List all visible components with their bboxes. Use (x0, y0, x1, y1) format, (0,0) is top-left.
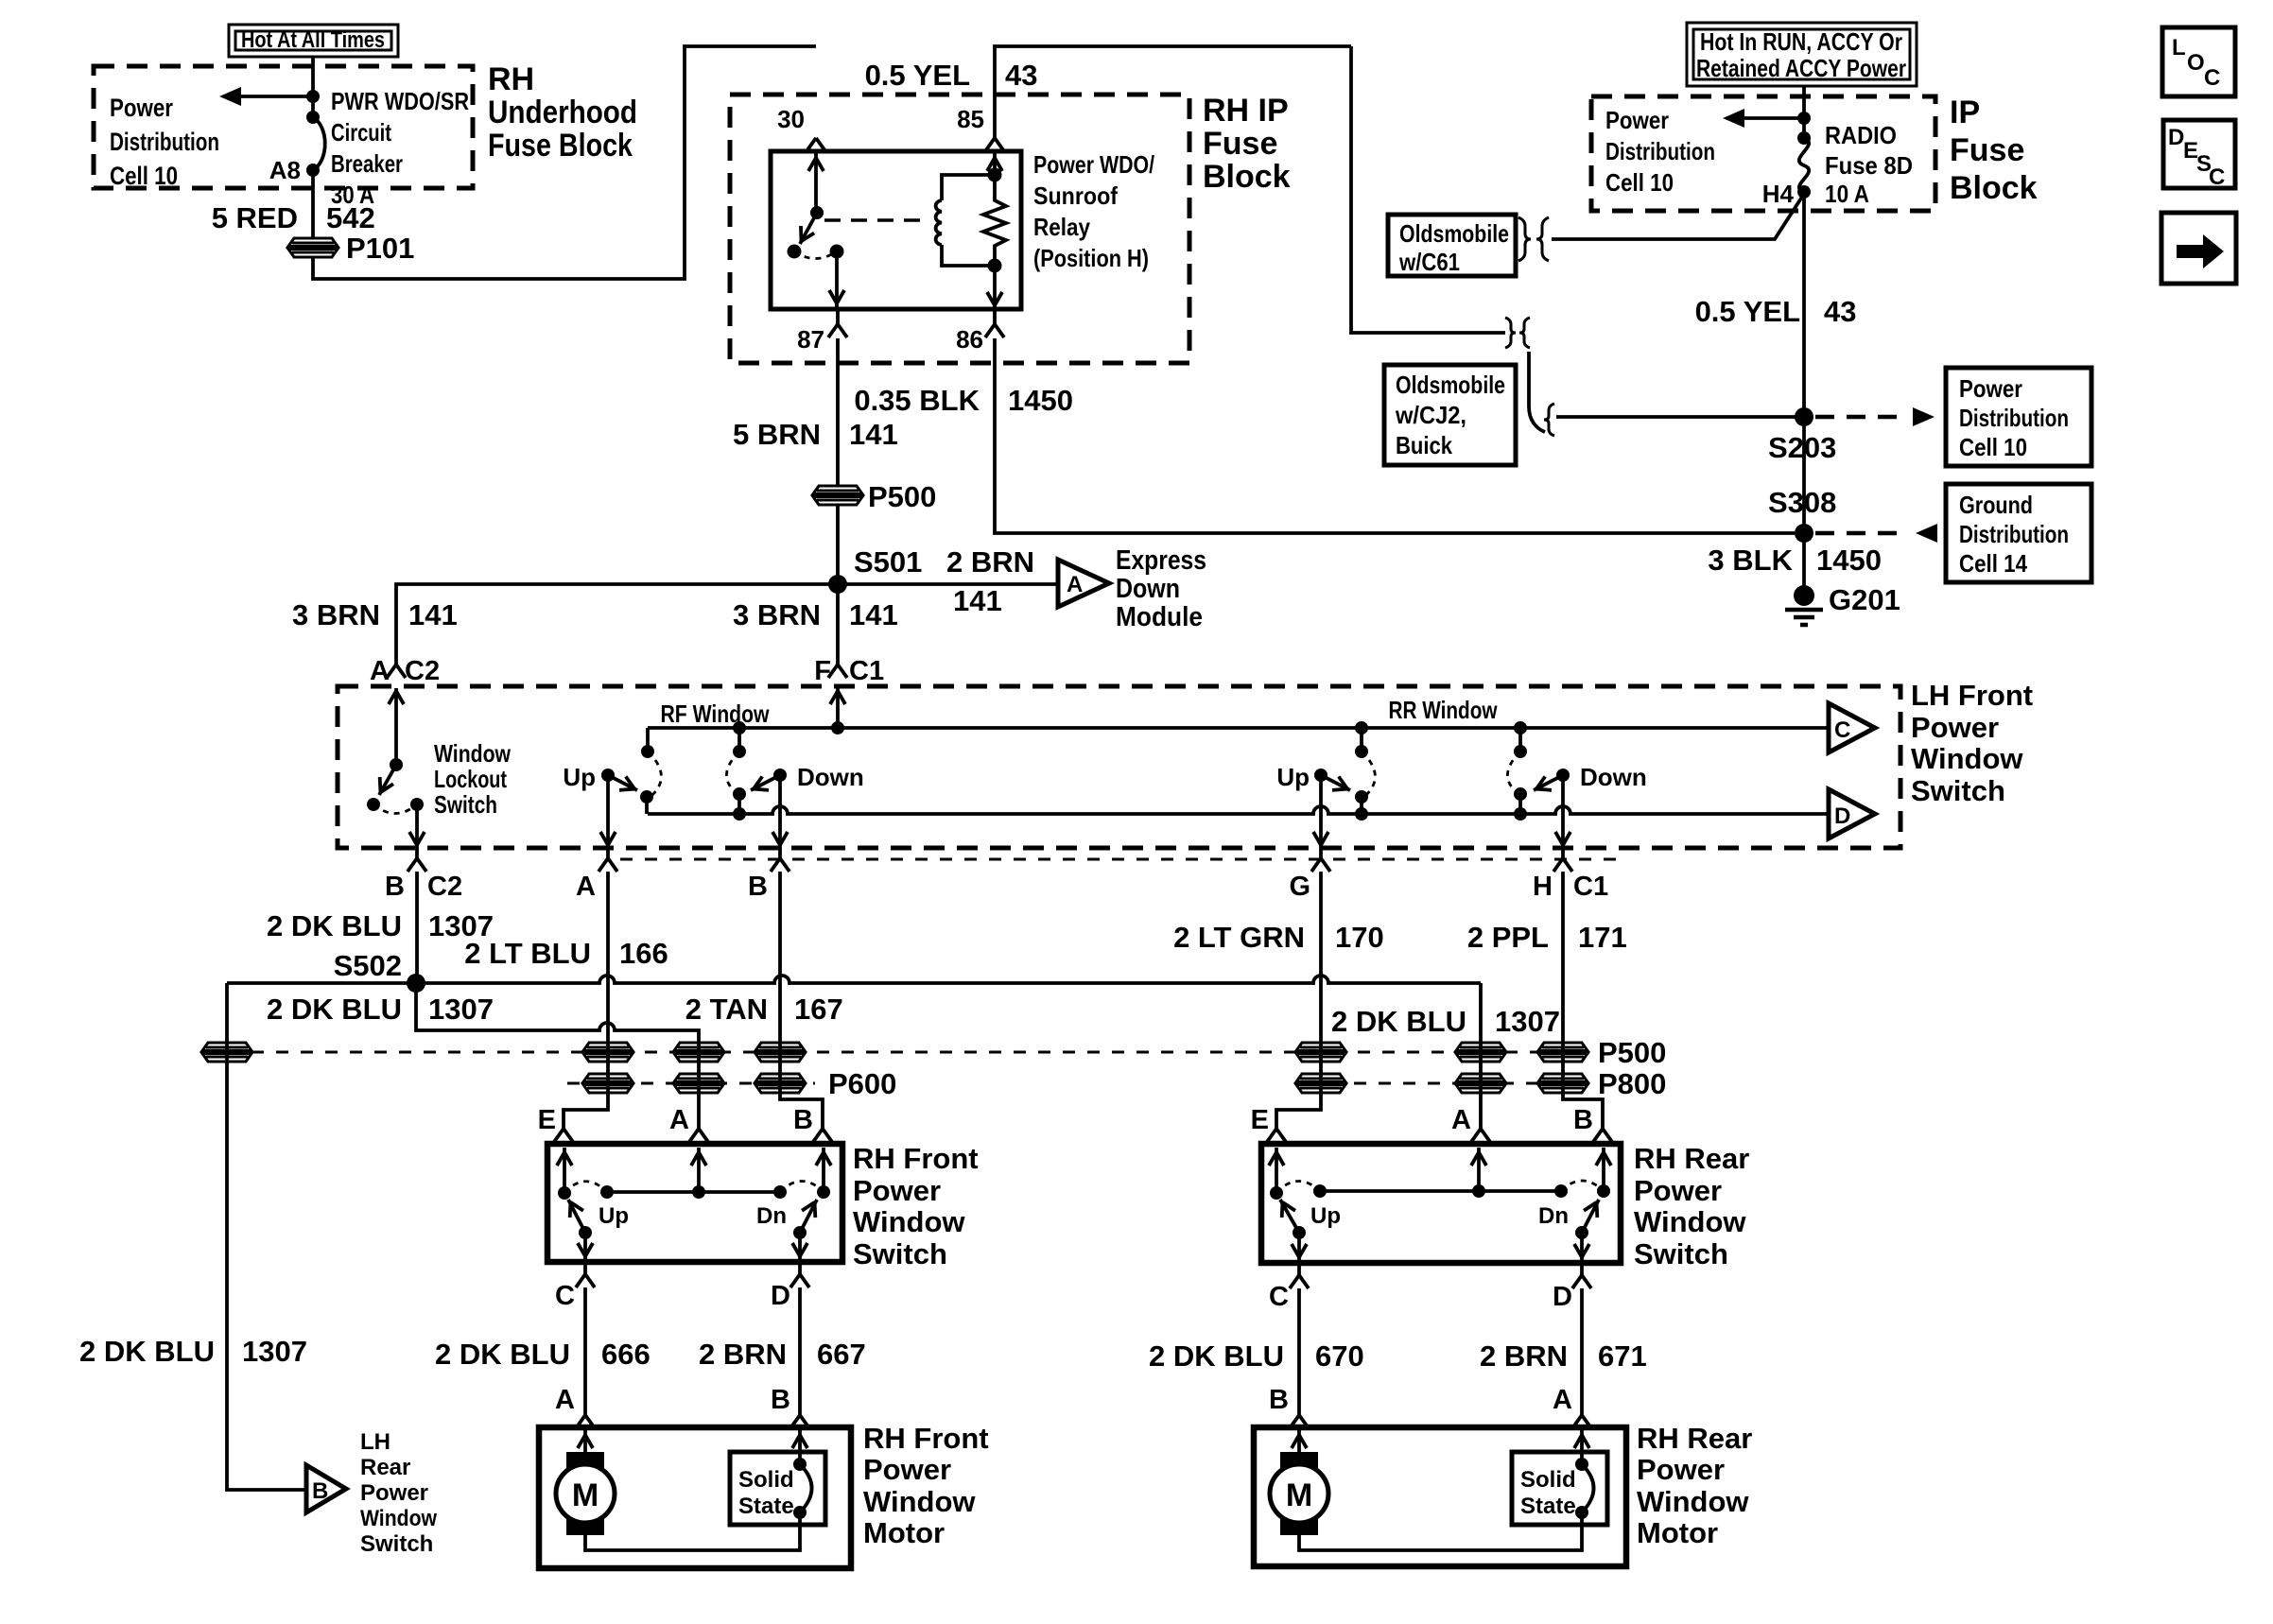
wire 3 BLK 1450 to ground (1802, 533, 1806, 586)
svg-text:Cell 10: Cell 10 (1605, 168, 1674, 197)
svg-text:Down: Down (1580, 763, 1647, 791)
svg-text:Fuse: Fuse (1950, 132, 2024, 168)
svg-text:Power: Power (1605, 106, 1669, 134)
svg-text:w/C61: w/C61 (1398, 248, 1460, 276)
svg-text:B: B (385, 872, 405, 902)
svg-text:87: 87 (797, 325, 824, 354)
svg-text:2 LT GRN: 2 LT GRN (1173, 921, 1305, 954)
svg-text:Cell 10: Cell 10 (110, 162, 178, 190)
fuse RADIO 8D 10A (1797, 131, 1811, 199)
svg-text:Power: Power (1911, 711, 1999, 744)
RF up fixed contact (640, 728, 661, 814)
svg-text:2 BRN: 2 BRN (946, 545, 1034, 579)
svg-text:1307: 1307 (242, 1335, 307, 1368)
wire CJ2 option to S203 (1556, 415, 1804, 419)
pin D connector front (798, 1262, 802, 1274)
svg-text:B: B (1269, 1385, 1289, 1415)
svg-text:1450: 1450 (1008, 384, 1073, 417)
svg-text:LH: LH (360, 1429, 390, 1455)
rear switch B feed (1602, 1148, 1605, 1191)
svg-text:RADIO: RADIO (1825, 121, 1897, 149)
svg-text:Dn: Dn (1538, 1203, 1569, 1229)
svg-text:Up: Up (1276, 763, 1310, 791)
svg-text:A8: A8 (269, 156, 301, 184)
connector line P800 dashed (1305, 1082, 1588, 1085)
wire 2 DK BLU 1307 from lockout B to S502 (415, 872, 419, 983)
front switch E feed (563, 1148, 566, 1193)
svg-text:2 PPL: 2 PPL (1467, 921, 1549, 954)
Oldsmobile w/C61 box (1388, 215, 1516, 276)
triangle A Express Down Module (1058, 560, 1109, 607)
svg-text:Window: Window (1911, 742, 2023, 775)
rear switch A feed (1477, 1148, 1481, 1191)
node on feed wire (306, 90, 320, 103)
svg-text:RH Front: RH Front (863, 1422, 989, 1455)
svg-text:O: O (2187, 50, 2205, 76)
svg-text:Window: Window (853, 1205, 965, 1238)
svg-text:3 BRN: 3 BRN (292, 598, 380, 631)
svg-text:C2: C2 (405, 656, 440, 686)
svg-text:Rear: Rear (360, 1455, 410, 1480)
wire 5 RED 542 down to P101 (311, 170, 315, 238)
svg-text:Hot At All Times: Hot At All Times (241, 27, 385, 53)
svg-text:2 DK BLU: 2 DK BLU (79, 1335, 215, 1368)
svg-text:P101: P101 (346, 232, 414, 265)
rear switch rocker contacts (1270, 1181, 1610, 1229)
svg-text:E: E (538, 1105, 556, 1135)
svg-text:Motor: Motor (863, 1516, 945, 1549)
svg-text:S501: S501 (854, 545, 922, 579)
svg-text:2 DK BLU: 2 DK BLU (1149, 1339, 1284, 1373)
RH Rear Power Window Motor box (1254, 1427, 1626, 1566)
svg-text:3 BRN: 3 BRN (733, 598, 821, 631)
svg-text:Ground: Ground (1959, 491, 2033, 519)
dashed wire to Ground Distribution (1815, 531, 1908, 536)
svg-text:H4: H4 (1762, 180, 1795, 208)
svg-text:Oldsmobile: Oldsmobile (1396, 371, 1505, 399)
svg-text:B: B (793, 1105, 813, 1135)
triangle C output (1829, 703, 1875, 752)
svg-text:C1: C1 (849, 656, 884, 686)
rear switch E feed (1275, 1148, 1278, 1193)
wire from P101 right and up to relay pin 30 (313, 46, 816, 279)
RF down fixed contact (726, 721, 746, 821)
RH Front Power Window Switch box (547, 1144, 842, 1262)
top bus wire (648, 726, 1829, 730)
wire 2 LT GRN 170 pin G down (1276, 872, 1321, 1129)
svg-text:A: A (555, 1385, 575, 1415)
front motor feed B (798, 1430, 802, 1464)
connector line P500 dashed (227, 1051, 1588, 1054)
wire F C1 into switch to top bus (836, 688, 840, 728)
svg-text:Power WDO/: Power WDO/ (1033, 150, 1154, 179)
LH Front Power Window Switch dashed box (338, 686, 1900, 848)
connector A-rear at P800 row (1456, 1074, 1505, 1093)
front switch left arm to C (564, 1199, 593, 1259)
connector P500 (single) (813, 486, 862, 505)
svg-text:RH Front: RH Front (853, 1142, 979, 1175)
connector left 2DKBLU at P500 row (202, 1043, 252, 1062)
svg-text:Motor: Motor (1637, 1516, 1718, 1549)
svg-text:G: G (1289, 872, 1310, 902)
wire from Hot In RUN into fuse (1802, 86, 1806, 138)
svg-text:B: B (771, 1385, 790, 1415)
svg-text:Up: Up (563, 763, 596, 791)
wire pin 87 out of relay (835, 251, 839, 309)
svg-text:10 A: 10 A (1825, 180, 1869, 208)
wire 2 TAN 167 pin B down (780, 872, 823, 1129)
svg-text:1307: 1307 (428, 993, 494, 1026)
svg-text:Switch: Switch (434, 790, 497, 819)
connector P101 (288, 238, 338, 257)
front switch B feed (822, 1148, 825, 1192)
svg-text:2 LT BLU: 2 LT BLU (464, 937, 591, 970)
svg-text:B: B (1573, 1105, 1593, 1135)
wire option stub down (1529, 352, 1545, 432)
svg-text:F: F (814, 656, 831, 686)
pin B connector front motor (790, 1415, 809, 1428)
RR down switch arm (1534, 763, 1647, 848)
svg-text:RH IP: RH IP (1203, 93, 1289, 129)
svg-text:Down: Down (1116, 574, 1180, 604)
pin A connector rear motor (1572, 1415, 1591, 1428)
front switch A feed (697, 1148, 701, 1192)
DESC legend box (2163, 120, 2235, 190)
svg-text:RR Window: RR Window (1389, 696, 1499, 724)
svg-text:Module: Module (1116, 602, 1203, 632)
svg-text:Window: Window (1634, 1205, 1746, 1238)
brace S203 line (1544, 404, 1554, 436)
svg-text:Cell 10: Cell 10 (1959, 433, 2027, 461)
svg-text:C: C (1834, 717, 1850, 743)
motor M front (556, 1452, 615, 1535)
rear solid state breaker (1575, 1458, 1594, 1519)
svg-text:Window: Window (434, 739, 512, 768)
svg-text:Power: Power (110, 94, 173, 122)
svg-text:Window: Window (1637, 1485, 1749, 1518)
relay coil (936, 168, 1002, 267)
svg-text:Solid: Solid (738, 1467, 794, 1493)
svg-text:0.5 YEL: 0.5 YEL (865, 59, 970, 92)
svg-text:C: C (1269, 1282, 1289, 1312)
svg-text:PWR WDO/SR: PWR WDO/SR (331, 87, 469, 115)
relay contact arc to pin 87 (794, 251, 837, 259)
svg-text:H: H (1533, 872, 1553, 902)
wire 2 BRN 141 to Express Down Module (838, 582, 1058, 586)
front switch rocker contacts (558, 1182, 830, 1230)
svg-text:A: A (576, 872, 596, 902)
svg-text:Power: Power (1637, 1453, 1725, 1486)
svg-text:Power: Power (1634, 1174, 1722, 1207)
pin G connector (1319, 848, 1323, 858)
wire 2 PPL 171 pin H down (1563, 872, 1603, 1129)
svg-text:P500: P500 (1598, 1036, 1666, 1069)
wire 0.5 YEL 43 from relay pin 85 to top right (995, 46, 1351, 138)
wire jog to front switch pin E (554, 1129, 573, 1142)
svg-text:State: State (738, 1494, 794, 1519)
brace pair CJ2 (1505, 318, 1516, 348)
splice S308 (1795, 524, 1813, 543)
svg-text:w/CJ2,: w/CJ2, (1395, 401, 1466, 429)
connector H wire at P800 row (1538, 1074, 1588, 1093)
svg-text:Express: Express (1116, 545, 1206, 576)
window lockout switch (367, 688, 425, 848)
svg-text:Switch: Switch (1634, 1237, 1728, 1270)
svg-text:Window: Window (863, 1485, 976, 1518)
svg-text:RH: RH (488, 61, 534, 97)
svg-text:0.35 BLK: 0.35 BLK (854, 384, 980, 417)
svg-text:671: 671 (1598, 1339, 1647, 1373)
svg-text:Power: Power (360, 1480, 428, 1506)
connector G wire at P800 row (1296, 1074, 1345, 1093)
svg-text:Relay: Relay (1033, 213, 1090, 241)
svg-text:LH Front: LH Front (1911, 679, 2033, 712)
RR up fixed contact (1355, 721, 1375, 821)
wire pin 86 out of relay (993, 266, 997, 309)
RH Rear Power Window Switch box (1261, 1144, 1621, 1263)
svg-text:Circuit: Circuit (331, 118, 391, 147)
arrow to power distribution (IP) (1733, 116, 1804, 120)
svg-text:IP: IP (1950, 95, 1980, 130)
wire pin 30 into relay (814, 151, 818, 218)
IP Fuse Block dashed box (1591, 96, 1935, 211)
svg-text:5 RED: 5 RED (212, 201, 298, 234)
svg-text:A: A (1553, 1385, 1572, 1415)
svg-text:C2: C2 (427, 872, 462, 902)
Power Distribution Cell 10 box (right) (1946, 368, 2091, 466)
svg-text:M: M (1286, 1477, 1312, 1513)
svg-text:P800: P800 (1598, 1067, 1666, 1100)
connector A-rear at P500 row (1456, 1043, 1505, 1062)
svg-text:S308: S308 (1768, 486, 1836, 519)
wire 2 LT BLU 166 pin A down (564, 872, 608, 1129)
svg-text:Lockout: Lockout (434, 765, 507, 793)
ground G201 (1785, 585, 1823, 625)
svg-text:A: A (1451, 1105, 1471, 1135)
RR up switch arm (1276, 763, 1350, 848)
svg-text:RH Rear: RH Rear (1634, 1142, 1749, 1175)
svg-text:2 TAN: 2 TAN (685, 993, 768, 1026)
connector line P600 dashed (567, 1082, 815, 1085)
splice S203 (1795, 407, 1813, 426)
svg-text:A: A (1067, 572, 1083, 597)
svg-text:B: B (748, 872, 768, 902)
wire to rear switch pin A (1471, 1129, 1490, 1142)
svg-text:141: 141 (953, 584, 1002, 617)
svg-text:670: 670 (1315, 1339, 1364, 1373)
svg-text:A: A (370, 656, 390, 686)
relay resistor (983, 175, 1006, 273)
svg-text:3 BLK: 3 BLK (1708, 544, 1793, 577)
svg-text:Solid: Solid (1520, 1467, 1576, 1493)
svg-text:C: C (2204, 65, 2220, 91)
svg-text:170: 170 (1335, 921, 1384, 954)
wire P500 to S501 (836, 505, 840, 665)
svg-text:P500: P500 (868, 480, 936, 513)
pin H connector (1561, 848, 1565, 858)
svg-text:1450: 1450 (1816, 544, 1882, 577)
splice S501 (828, 575, 847, 594)
svg-text:1307: 1307 (1495, 1005, 1560, 1038)
svg-text:171: 171 (1578, 921, 1627, 954)
rear switch right arm to D (1574, 1199, 1604, 1260)
wire 2 BRN 671 (1580, 1288, 1584, 1415)
svg-text:Retained ACCY Power: Retained ACCY Power (1696, 54, 1906, 82)
svg-text:141: 141 (849, 598, 898, 631)
svg-text:C1: C1 (1573, 872, 1608, 902)
S502 bus wire with hops (227, 976, 1481, 983)
svg-text:D: D (2168, 125, 2184, 150)
svg-text:A: A (669, 1105, 689, 1135)
svg-text:State: State (1520, 1494, 1576, 1519)
svg-text:Power: Power (863, 1453, 951, 1486)
svg-text:0.5 YEL: 0.5 YEL (1695, 295, 1800, 328)
svg-text:RF Window: RF Window (661, 700, 771, 728)
wire 0.35 BLK 1450 down to S308 line (995, 338, 1795, 533)
pin B C2 connector (415, 848, 419, 858)
svg-text:Buick: Buick (1396, 431, 1452, 459)
wire 0.5 YEL 43 from H4 down to S203 (1802, 192, 1806, 533)
relay outline box (771, 151, 1021, 309)
svg-text:2 BRN: 2 BRN (699, 1338, 787, 1371)
wire jog to rear switch pin B (1593, 1129, 1612, 1142)
triangle D output (1829, 789, 1875, 838)
svg-text:Up: Up (599, 1203, 629, 1229)
pin D connector rear (1580, 1263, 1584, 1275)
bottom bus wire with hops (648, 806, 1829, 814)
connector B wire at P500 row (755, 1043, 805, 1062)
svg-text:86: 86 (956, 325, 983, 354)
svg-text:85: 85 (957, 105, 984, 133)
svg-text:Hot In RUN, ACCY Or: Hot In RUN, ACCY Or (1700, 27, 1902, 56)
circuit breaker PWR WDO/SR 30 A (306, 111, 325, 177)
wire 2 DK BLU 670 (1297, 1288, 1301, 1415)
svg-text:542: 542 (326, 201, 375, 234)
svg-text:G201: G201 (1829, 583, 1900, 616)
svg-text:Block: Block (1950, 170, 2038, 206)
connector A wire at P500 row (583, 1043, 633, 1062)
svg-text:2 DK BLU: 2 DK BLU (267, 993, 402, 1026)
svg-text:D: D (1553, 1282, 1572, 1312)
svg-text:P600: P600 (828, 1067, 896, 1100)
rear motor bottom loop wire (1299, 1512, 1582, 1550)
svg-text:2 DK BLU: 2 DK BLU (1331, 1005, 1466, 1038)
svg-text:167: 167 (794, 993, 843, 1026)
dashed wire to Power Distribution (1815, 415, 1908, 420)
svg-text:Block: Block (1203, 159, 1291, 195)
arrow to power distribution (230, 95, 313, 98)
svg-text:43: 43 (1005, 59, 1037, 92)
triangle B LH Rear Power Window Switch (306, 1465, 346, 1512)
svg-text:2 DK BLU: 2 DK BLU (435, 1338, 570, 1371)
svg-text:2 BRN: 2 BRN (1480, 1339, 1568, 1373)
svg-text:L: L (2172, 35, 2186, 60)
relay mechanical linkage dashed (824, 218, 927, 222)
svg-text:Breaker: Breaker (331, 149, 403, 178)
brace pair C61 (1518, 217, 1531, 261)
connector A wire at P600 row (583, 1074, 633, 1093)
svg-text:RH Rear: RH Rear (1637, 1422, 1752, 1455)
Ground Distribution Cell 14 box (1946, 484, 2091, 582)
pin B connector (778, 848, 782, 858)
RF up switch arm (563, 763, 637, 848)
wire from Hot At All Times down to breaker (311, 57, 315, 117)
svg-text:B: B (312, 1478, 328, 1504)
svg-text:Power: Power (1959, 374, 2022, 403)
svg-text:2 DK BLU: 2 DK BLU (267, 909, 402, 942)
rear motor feed A (1580, 1430, 1584, 1464)
Hot In RUN ACCY label box (1687, 23, 1917, 86)
Oldsmobile w/CJ2 Buick box (1384, 365, 1516, 465)
svg-text:666: 666 (601, 1338, 651, 1371)
front motor feed A (583, 1430, 587, 1456)
svg-text:Up: Up (1310, 1203, 1341, 1229)
relay switch arm (788, 206, 824, 259)
svg-text:43: 43 (1824, 295, 1856, 328)
RH Front Power Window Motor box (539, 1427, 851, 1568)
pin C connector front (583, 1262, 587, 1274)
wire C61 option to fuse H4 (1552, 194, 1804, 239)
svg-text:667: 667 (817, 1338, 866, 1371)
svg-text:D: D (1834, 803, 1850, 829)
svg-text:166: 166 (619, 937, 668, 970)
wire 2 DK BLU 1307 left long run (227, 983, 306, 1490)
RR down fixed contact (1507, 721, 1527, 821)
svg-text:Power: Power (853, 1174, 941, 1207)
svg-text:Distribution: Distribution (110, 128, 219, 156)
wire to front switch pin A (689, 1129, 708, 1142)
svg-text:141: 141 (849, 418, 898, 451)
svg-text:D: D (771, 1281, 790, 1311)
rear motor feed B (1297, 1430, 1301, 1456)
svg-text:(Position H): (Position H) (1033, 244, 1149, 272)
svg-text:Underhood: Underhood (488, 95, 637, 130)
motor M rear (1270, 1452, 1328, 1535)
svg-text:Cell 14: Cell 14 (1959, 549, 2027, 578)
front solid state unit (730, 1452, 825, 1525)
front solid state breaker (793, 1458, 812, 1519)
svg-text:S203: S203 (1768, 431, 1836, 464)
wire 0.5 YEL 43 right segment down (1351, 46, 1505, 333)
wire 2 DK BLU 666 (583, 1287, 587, 1415)
svg-text:Window: Window (360, 1506, 437, 1531)
connector H wire at P500 row (1538, 1043, 1588, 1062)
svg-text:M: M (572, 1477, 599, 1513)
svg-text:S502: S502 (334, 949, 402, 982)
connector G wire at P500 row (1296, 1043, 1345, 1062)
rear switch left arm to C (1275, 1199, 1307, 1260)
svg-text:141: 141 (408, 598, 458, 631)
S502 branch wire to P600 (416, 983, 699, 1129)
arrow legend box (2161, 213, 2236, 284)
svg-text:Oldsmobile: Oldsmobile (1399, 219, 1509, 248)
pin C connector rear (1297, 1263, 1301, 1275)
RH IP Fuse Block dashed box (730, 95, 1189, 363)
svg-text:Switch: Switch (853, 1237, 947, 1270)
svg-text:Distribution: Distribution (1959, 404, 2069, 432)
wire jog to front switch pin B (813, 1129, 832, 1142)
Power Distribution Cell 10 dashed box (underhood) (94, 66, 473, 188)
svg-text:E: E (1251, 1105, 1269, 1135)
svg-text:Fuse: Fuse (1203, 126, 1277, 162)
svg-text:Fuse Block: Fuse Block (488, 128, 633, 164)
Hot At All Times label box (229, 25, 398, 57)
wire pin 85 into relay (993, 151, 997, 181)
svg-text:Down: Down (797, 763, 864, 791)
connector B wire at P600 row (755, 1074, 805, 1093)
connector S502 branch at P500 row (674, 1043, 723, 1062)
svg-text:Fuse 8D: Fuse 8D (1825, 151, 1913, 180)
